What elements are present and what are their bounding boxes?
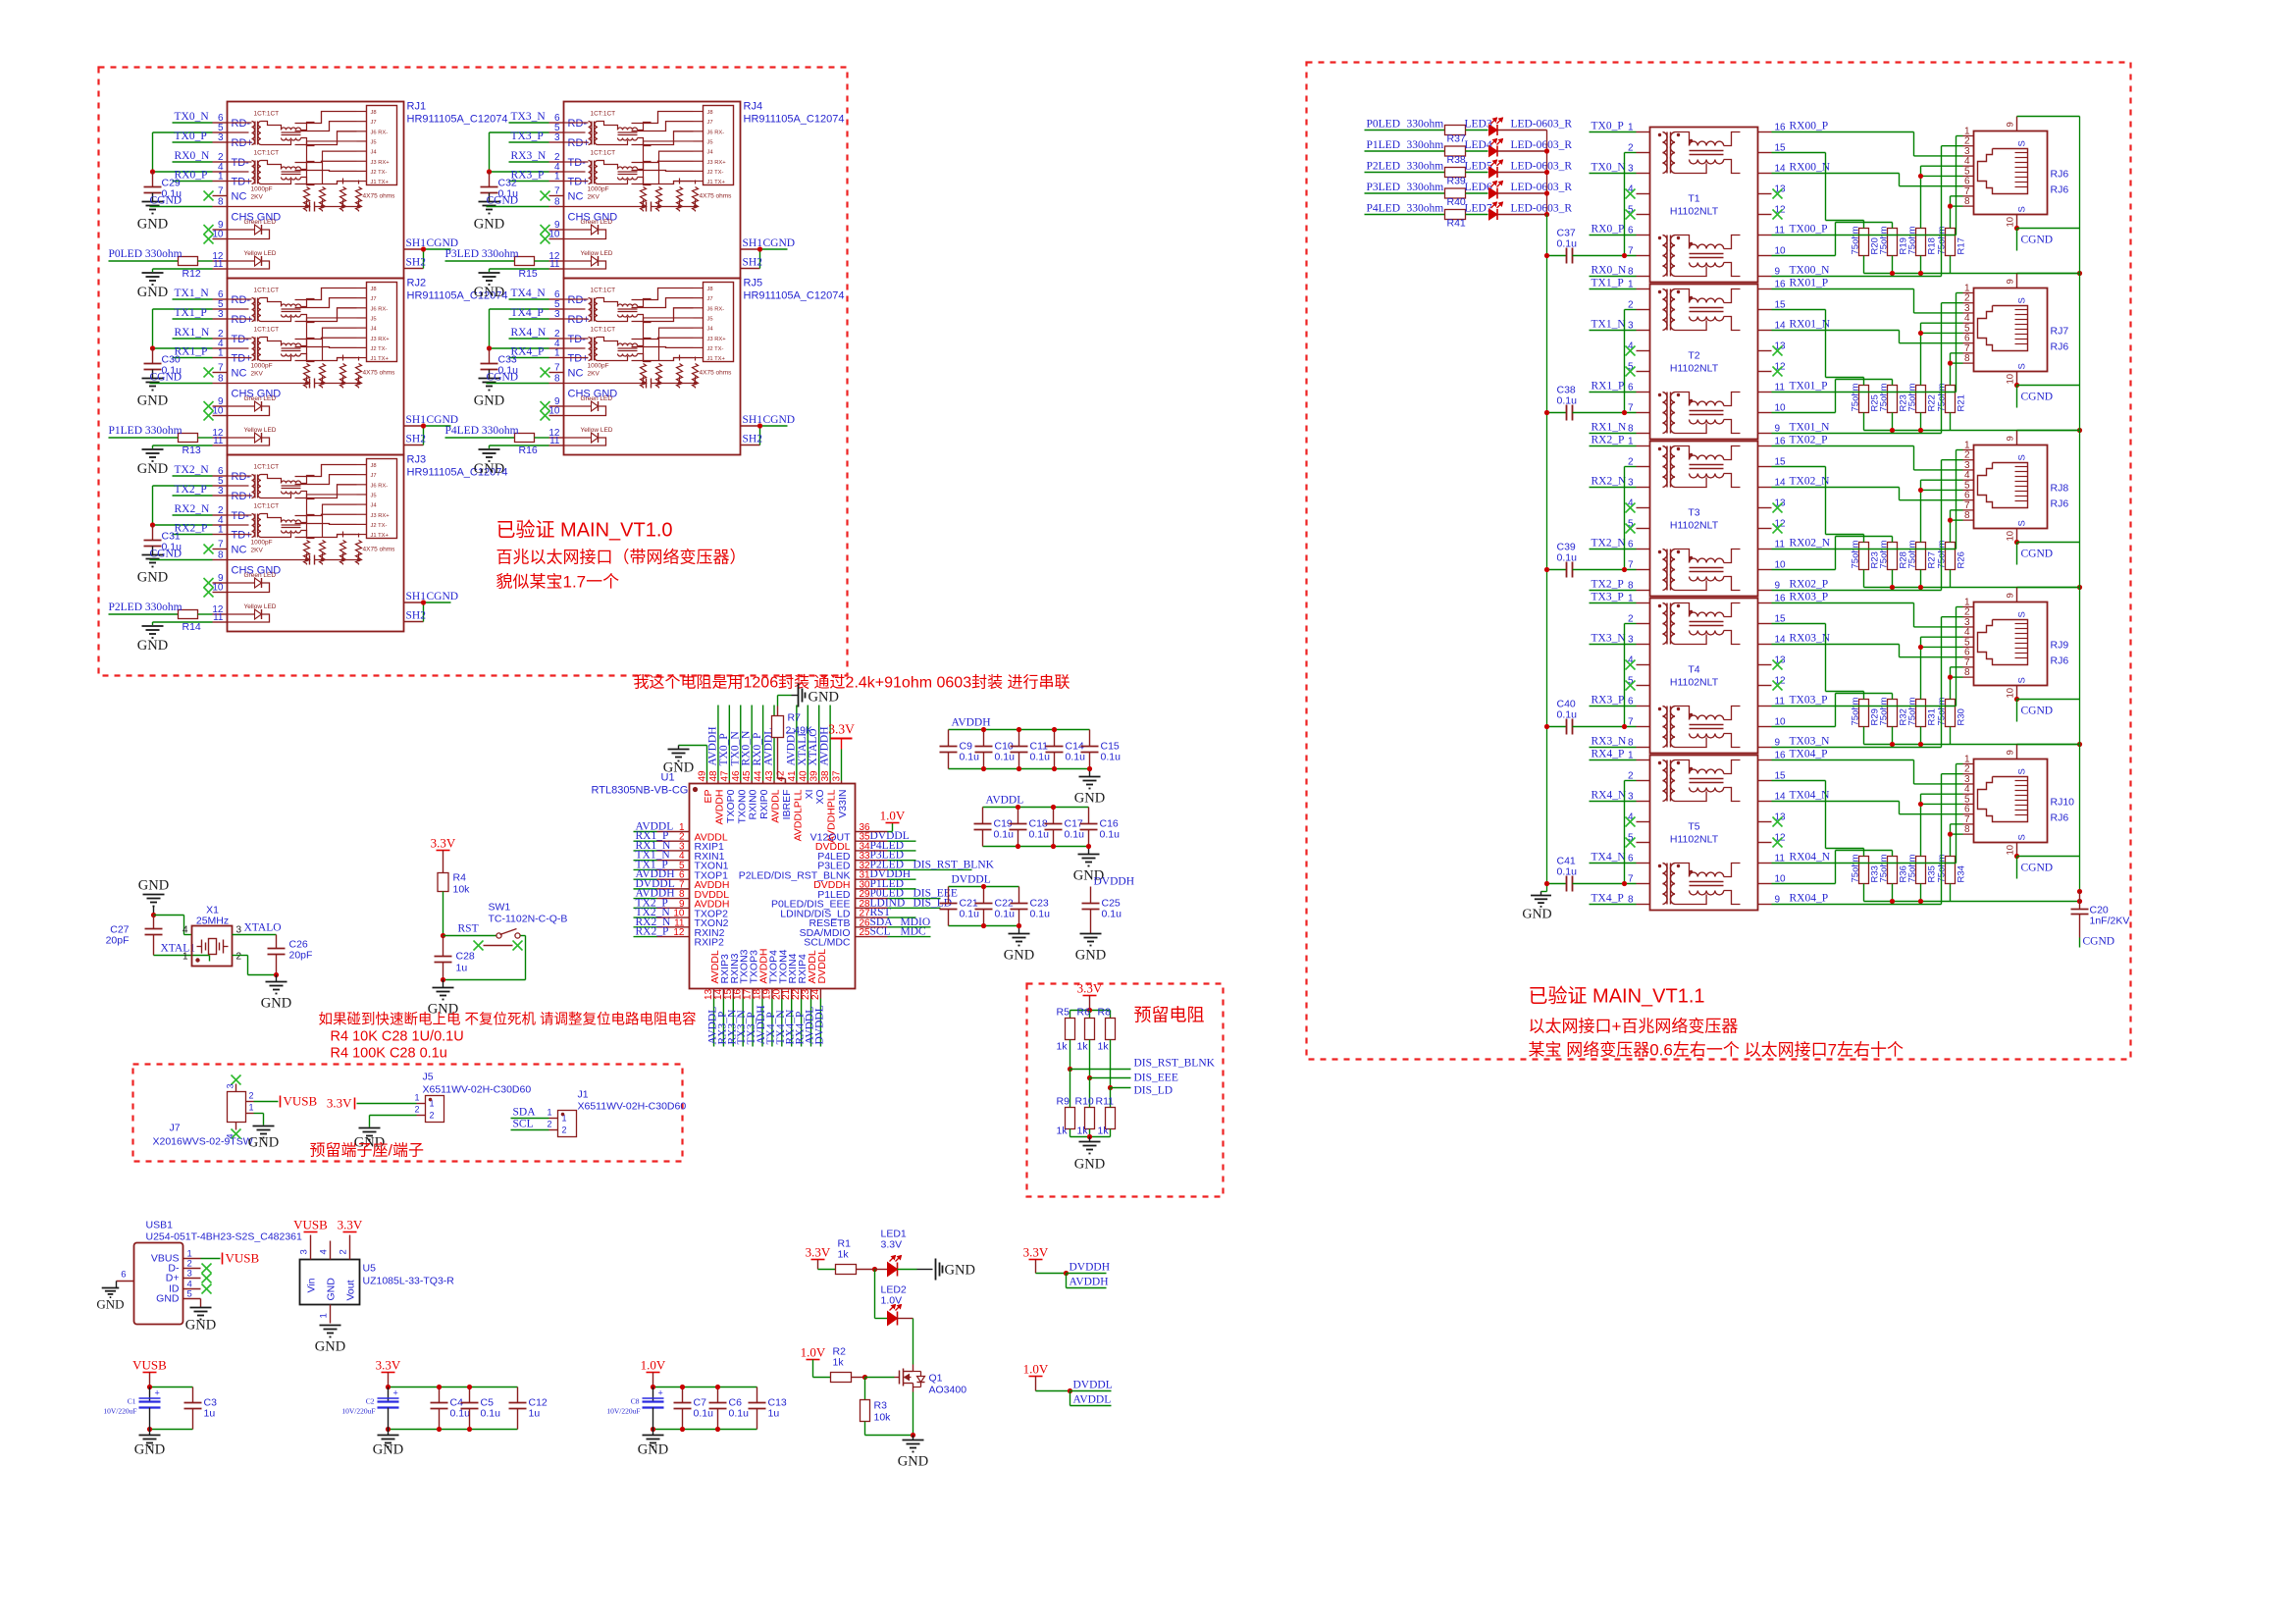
svg-text:GND: GND [474, 217, 504, 233]
resistor R27 75ohm [1916, 543, 1926, 570]
svg-text:3: 3 [218, 309, 224, 320]
svg-text:1u: 1u [204, 1408, 216, 1420]
svg-text:R9: R9 [1057, 1096, 1070, 1108]
svg-text:J2 TX-: J2 TX- [371, 170, 388, 176]
svg-text:DIS_RST_BLNK: DIS_RST_BLNK [913, 859, 995, 870]
svg-text:P3LED 330ohm: P3LED 330ohm [445, 248, 519, 260]
RJ10 pin 1 [1963, 763, 1974, 765]
svg-text:SW1: SW1 [489, 902, 511, 914]
wire RX_P to jack pin3 [1772, 445, 1914, 447]
U1 pin 1 AVDDL [657, 831, 690, 833]
svg-text:RJ2: RJ2 [407, 278, 427, 289]
svg-text:R40: R40 [1447, 196, 1466, 208]
internal RJ45 pin block [367, 106, 397, 185]
svg-text:1CT:1CT: 1CT:1CT [254, 327, 280, 334]
svg-text:TX0_P: TX0_P [175, 131, 207, 142]
svg-text:29: 29 [860, 889, 871, 900]
wire CT pin15 to R [1772, 780, 1826, 782]
U1 pin 33 [856, 860, 888, 862]
svg-text:1: 1 [414, 1093, 419, 1103]
wire rail bottom [653, 1429, 757, 1431]
wire XTAL1 [154, 955, 210, 957]
U1 pin 16 TX3_N [742, 989, 744, 999]
svg-text:USB1: USB1 [146, 1220, 174, 1231]
no-connect pin7 [541, 191, 550, 201]
RJ10 pin 7 [1963, 823, 1974, 825]
svg-text:P2LED 330ohm: P2LED 330ohm [109, 602, 183, 613]
svg-text:0.1u: 0.1u [729, 1408, 750, 1420]
svg-text:2: 2 [236, 952, 242, 963]
svg-text:1k: 1k [1077, 1126, 1089, 1137]
svg-text:RJ9: RJ9 [2051, 640, 2069, 652]
U1 pin 32 [856, 868, 888, 870]
capacitor C16 0.1u [1088, 808, 1090, 824]
polarized capacitor C8 10V/220uF [652, 1387, 654, 1402]
junction [487, 169, 492, 174]
wire jack pins 4,5 to R [1921, 793, 1963, 795]
svg-text:X6511WV-02H-C30D60: X6511WV-02H-C30D60 [423, 1084, 532, 1096]
RJ45 connector symbol [1978, 149, 2028, 194]
T4 pin 1 [1637, 602, 1650, 604]
svg-text:J6 RX-: J6 RX- [371, 306, 389, 312]
internal RJ45 pin block [704, 283, 734, 362]
svg-text:C2: C2 [366, 1397, 375, 1406]
svg-text:TD-: TD- [232, 510, 250, 522]
svg-text:330ohm: 330ohm [1407, 182, 1444, 193]
capacitor C15 0.1u [1089, 730, 1091, 747]
dashed frame MAIN_VT1.1 block [1307, 63, 2131, 1060]
svg-text:TX03_P: TX03_P [1790, 695, 1828, 707]
svg-text:RTL8305NB-VB-CG: RTL8305NB-VB-CG [592, 785, 689, 797]
wire SH1/SH2 to CGND [741, 248, 760, 250]
svg-text:3.3V: 3.3V [806, 1245, 831, 1260]
svg-text:4X75 ohms: 4X75 ohms [363, 193, 396, 200]
T4 pin 11 [1758, 706, 1772, 707]
wire EP pin49 to GND [706, 746, 708, 781]
svg-text:1k: 1k [1098, 1126, 1110, 1137]
resistor R17 75ohm [1946, 229, 1956, 256]
svg-text:TX3_N: TX3_N [511, 111, 547, 123]
svg-text:J4: J4 [371, 150, 378, 156]
svg-text:GND: GND [261, 996, 291, 1012]
wire TX2_P [1590, 590, 1637, 592]
RJ9 shield pin 10 [2016, 686, 2018, 700]
ground [1089, 1137, 1091, 1142]
svg-text:10: 10 [548, 230, 560, 240]
wire RX0_N [1590, 276, 1637, 278]
svg-text:某宝 网络变压器0.6左右一个 以太网接口7左右十个: 某宝 网络变压器0.6左右一个 以太网接口7左右十个 [1529, 1041, 1905, 1060]
transformer windings [1663, 603, 1668, 645]
wire TX4_N to pin6 [509, 298, 549, 300]
svg-text:75ohm: 75ohm [1851, 226, 1861, 254]
U1 pin 4 TX1_N [657, 860, 690, 862]
wire CT pin10 to R [1772, 569, 1836, 571]
T5 pin 1 [1637, 759, 1650, 761]
svg-text:TX1_P: TX1_P [175, 307, 207, 319]
svg-text:J1 TX+: J1 TX+ [707, 356, 726, 362]
svg-text:TXOP0: TXOP0 [725, 789, 737, 823]
U1 pin 7 DVDDL [657, 888, 690, 890]
svg-text:1CT:1CT: 1CT:1CT [254, 503, 280, 510]
RJ45 connector symbol [1978, 777, 2028, 822]
svg-text:TX2_N: TX2_N [1592, 538, 1627, 550]
svg-text:Vin: Vin [306, 1278, 318, 1292]
wire P4LED [1365, 214, 1445, 216]
svg-text:J8: J8 [371, 463, 377, 469]
svg-text:TX04_N: TX04_N [1790, 790, 1831, 802]
svg-text:1CT:1CT: 1CT:1CT [591, 150, 616, 157]
no-connect pins 13,12 [1773, 817, 1783, 827]
wire TX1_N [1590, 330, 1637, 332]
RJ10 pin 8 [1963, 833, 1974, 835]
svg-text:AVDDLPLL: AVDDLPLL [792, 789, 804, 841]
svg-text:GND: GND [137, 570, 168, 586]
svg-text:GND: GND [945, 1263, 975, 1279]
wire/net AVDDH [717, 706, 719, 781]
capacitor C9 0.1u [948, 730, 950, 747]
svg-text:4: 4 [183, 925, 188, 936]
svg-text:TX4_P: TX4_P [1592, 893, 1624, 905]
svg-text:31: 31 [860, 870, 871, 881]
connector J1 X6511WV-02H-C30D60 [558, 1111, 577, 1137]
svg-text:1CT:1CT: 1CT:1CT [591, 288, 616, 294]
capacitor C38 0.1u [1547, 412, 1567, 414]
wire TX_P to jack pin1 [1772, 863, 1957, 864]
svg-text:LED6: LED6 [1465, 182, 1492, 193]
svg-text:GND: GND [373, 1442, 403, 1458]
svg-text:LED-0603_R: LED-0603_R [1511, 139, 1573, 151]
svg-text:TX2_P: TX2_P [175, 484, 207, 496]
svg-text:RX0_N: RX0_N [175, 150, 210, 162]
internal 4x75 ohm resistors [641, 187, 647, 212]
capacitor C39 0.1u [1547, 569, 1567, 571]
T3 pin 9 [1758, 590, 1772, 592]
resistor R19 75ohm [1888, 229, 1898, 256]
svg-text:J7: J7 [371, 120, 377, 126]
svg-text:TX0_N: TX0_N [175, 111, 210, 123]
svg-text:0.1u: 0.1u [1100, 829, 1121, 841]
T2 pin 6 [1637, 392, 1650, 393]
RJ8 pin 8 [1963, 519, 1974, 521]
svg-text:RX03_N: RX03_N [1790, 633, 1831, 645]
svg-text:U5: U5 [363, 1263, 377, 1275]
svg-text:H1102NLT: H1102NLT [1670, 677, 1719, 689]
svg-text:J2 TX-: J2 TX- [707, 170, 724, 176]
RJ8 shield pin 10 [2016, 529, 2018, 543]
RJ6 pin 1 [1963, 135, 1974, 137]
T4 pin 10 [1758, 726, 1772, 728]
svg-text:J6 RX-: J6 RX- [707, 306, 725, 312]
svg-text:GND: GND [809, 690, 839, 706]
T5 pin 14 [1758, 801, 1772, 803]
T3 pin 11 [1758, 549, 1772, 550]
internal RJ45 pin block [367, 283, 397, 362]
resistor R10 1k [1085, 1108, 1095, 1129]
no-connect pin10 [204, 235, 214, 244]
RJ8 pin 5 [1963, 489, 1974, 491]
RJ10 shield pin 9 [2016, 745, 2018, 759]
wire pin11 to GND [153, 268, 213, 270]
svg-text:J3 RX+: J3 RX+ [371, 337, 391, 342]
T1 pin 8 [1637, 276, 1650, 278]
svg-text:CGND: CGND [150, 372, 183, 384]
T4 pin 4 [1637, 664, 1650, 666]
U1 pin 39 [818, 781, 820, 784]
wire shield pin9 to CGND rail [2017, 430, 2080, 432]
RJ45 jack RJ5 (HR911105A) [564, 279, 741, 455]
ground [1089, 769, 1091, 777]
svg-text:RJ6: RJ6 [2051, 184, 2069, 196]
svg-text:RX00_N: RX00_N [1790, 162, 1831, 174]
wire RX_P to jack pin3 [1772, 131, 1914, 133]
capacitor C33 0.1u [489, 348, 491, 364]
wire RX2_N to pin2 [173, 514, 213, 516]
capacitor C11 0.1u [1018, 730, 1020, 747]
ground [190, 1307, 212, 1309]
svg-text:LED4: LED4 [1465, 139, 1492, 151]
wire to Q1 gate [865, 1377, 895, 1379]
svg-text:11: 11 [213, 436, 224, 446]
wire RX2_P to pin1 [173, 534, 213, 536]
svg-text:8: 8 [554, 197, 560, 208]
T2 pin 14 [1758, 330, 1772, 332]
svg-text:0.1u: 0.1u [1101, 752, 1122, 763]
svg-text:2: 2 [414, 1105, 419, 1115]
T2 pin 12 [1758, 371, 1772, 373]
resistor R1 1k [836, 1265, 857, 1275]
svg-text:8: 8 [218, 550, 224, 561]
wire jack pins 7,8 to R [1951, 195, 1963, 197]
svg-text:RX3_P: RX3_P [1592, 695, 1625, 707]
U1 pin 14 RX3_P [722, 989, 724, 999]
svg-text:RJ3: RJ3 [407, 454, 427, 466]
svg-text:RJ5: RJ5 [744, 278, 763, 289]
svg-text:TX2_P: TX2_P [1592, 579, 1624, 591]
ground [253, 1126, 275, 1127]
no-connect [202, 1264, 212, 1274]
svg-text:P1LED 330ohm: P1LED 330ohm [109, 425, 183, 437]
U1 pin 22 RX4_P [801, 989, 803, 999]
U1 pin 35 [856, 840, 888, 842]
svg-text:TX3_N: TX3_N [1592, 633, 1627, 645]
svg-text:J1: J1 [578, 1089, 589, 1101]
svg-text:AVDDH: AVDDH [1070, 1277, 1109, 1288]
svg-text:J5: J5 [371, 316, 377, 322]
wire pin11 to GND [153, 621, 213, 623]
wire TX2_P to pin3 [173, 495, 213, 497]
svg-text:RJ6: RJ6 [2051, 498, 2069, 510]
T4 pin 7 [1637, 726, 1650, 728]
svg-text:10k: 10k [453, 884, 471, 896]
internal 4x75 ohm resistors [304, 364, 310, 389]
wire jack pins 4,5 to R [1921, 165, 1963, 167]
svg-text:RX04_P: RX04_P [1790, 893, 1829, 905]
svg-text:75ohm: 75ohm [1879, 540, 1890, 568]
T3 pin 1 [1637, 445, 1650, 447]
T5 pin 6 [1637, 863, 1650, 864]
ground [142, 554, 164, 556]
svg-text:GND: GND [474, 393, 504, 409]
svg-text:如果碰到快速断电上电 不复位死机 请调整复位电路电阻电容: 如果碰到快速断电上电 不复位死机 请调整复位电路电阻电容 [319, 1011, 697, 1028]
svg-text:10: 10 [2006, 531, 2016, 542]
svg-text:75ohm: 75ohm [1907, 383, 1918, 411]
wire TX4_N [1590, 863, 1637, 864]
svg-text:DVDDL: DVDDL [952, 874, 991, 886]
resistor R8 1k [1110, 1011, 1112, 1019]
ground [142, 625, 164, 627]
RJ6 pin 4 [1963, 165, 1974, 167]
svg-text:TD+: TD+ [232, 353, 252, 365]
U1 pin 15 RX3_N [732, 989, 734, 999]
svg-text:1CT:1CT: 1CT:1CT [254, 288, 280, 294]
resistor R20 75ohm [1859, 229, 1869, 256]
wire rail top [983, 807, 1089, 809]
svg-text:RJ1: RJ1 [407, 101, 427, 113]
svg-text:3.3V: 3.3V [828, 722, 855, 737]
internal wiring [632, 112, 694, 124]
wire rail bottom [983, 846, 1089, 848]
svg-text:V12OUT: V12OUT [810, 832, 851, 844]
wire P2LED [1365, 172, 1445, 174]
resistor R36 75ohm [1888, 857, 1898, 884]
svg-text:CGND: CGND [2021, 549, 2054, 560]
svg-text:H1102NLT: H1102NLT [1670, 834, 1719, 846]
capacitor C31 0.1u [152, 525, 154, 541]
svg-text:1: 1 [218, 525, 224, 536]
svg-text:8: 8 [1964, 353, 1970, 364]
svg-text:TX1_N: TX1_N [1592, 319, 1627, 331]
wire RX1_P [1590, 392, 1637, 393]
RJ45 jack RJ2 (HR911105A) [228, 279, 404, 455]
svg-text:3.3V: 3.3V [1077, 981, 1103, 996]
wire RX_P to jack pin3 [1772, 759, 1914, 761]
svg-text:XTALI: XTALI [797, 733, 809, 766]
RJ45 connector symbol [1978, 620, 2028, 665]
svg-text:TD-: TD- [232, 334, 250, 345]
svg-text:SH2: SH2 [406, 257, 427, 269]
wire VBUS to VUSB [201, 1258, 221, 1260]
T4 pin 2 [1637, 623, 1650, 625]
wire rail top [949, 729, 1090, 731]
svg-text:3.3V: 3.3V [338, 1218, 363, 1232]
svg-text:RD+: RD+ [568, 137, 590, 149]
no-connect pins 4,5 [1626, 817, 1636, 827]
ground [142, 378, 164, 380]
svg-text:TX00_P: TX00_P [1790, 224, 1828, 236]
no-connect pins 13,12 [1773, 346, 1783, 356]
svg-text:7: 7 [218, 540, 224, 550]
U1 pin 8 AVDDH [657, 898, 690, 900]
svg-text:T5: T5 [1688, 821, 1699, 833]
svg-text:J6 RX-: J6 RX- [371, 130, 389, 135]
T3 pin 15 [1758, 466, 1772, 468]
wire resistor bottom bus [1863, 884, 1865, 902]
svg-text:CGND: CGND [150, 549, 183, 560]
RJ7 pin 1 [1963, 292, 1974, 294]
svg-text:3: 3 [554, 309, 560, 320]
internal RJ45 pin block [367, 459, 397, 539]
T3 pin 13 [1758, 507, 1772, 509]
svg-text:RX2_P: RX2_P [636, 926, 669, 938]
svg-text:预留端子座/端子: 预留端子座/端子 [310, 1142, 424, 1160]
T1 pin 5 [1637, 214, 1650, 216]
resistor R37 330ohm [1445, 126, 1466, 135]
RJ45 jack RJ7 [1974, 288, 2048, 372]
svg-text:Vout: Vout [345, 1280, 357, 1300]
svg-text:1u: 1u [768, 1408, 780, 1420]
wire RX_N to jack pin6 [1772, 644, 1900, 646]
U1 pin 25 [856, 936, 888, 938]
svg-text:S: S [2017, 677, 2028, 683]
svg-text:1u: 1u [456, 963, 468, 974]
capacitor C23 0.1u [1018, 887, 1020, 904]
svg-text:Green LED: Green LED [244, 572, 277, 579]
svg-text:R8: R8 [1098, 1007, 1112, 1019]
wire RX2_P [1590, 445, 1637, 447]
resistor R25 75ohm [1859, 386, 1869, 413]
svg-text:RX4_N: RX4_N [1592, 790, 1627, 802]
svg-text:8: 8 [1964, 824, 1970, 835]
svg-text:R16: R16 [519, 445, 538, 456]
svg-text:RX0_P: RX0_P [752, 733, 763, 766]
no-connect pins 4,5 [1626, 346, 1636, 356]
svg-text:+: + [658, 1388, 663, 1398]
capacitor C3 1u [192, 1387, 194, 1403]
svg-text:RX4_P: RX4_P [1592, 749, 1625, 760]
no-connect pin7 [204, 191, 214, 201]
wire TX1_P [1590, 288, 1637, 290]
U1 pin 27 [856, 916, 888, 918]
svg-text:LED3: LED3 [1465, 119, 1492, 131]
svg-text:AVDDH: AVDDH [713, 790, 725, 825]
svg-text:10: 10 [212, 230, 224, 240]
wire TX2_N [1590, 549, 1637, 550]
no-connect pin10 [541, 411, 550, 421]
svg-text:+: + [155, 1388, 160, 1398]
svg-text:GND: GND [638, 1442, 668, 1458]
svg-text:貌似某宝1.7一个: 貌似某宝1.7一个 [496, 573, 620, 592]
resistor R18 75ohm [1916, 229, 1926, 256]
svg-text:AVDDH: AVDDH [706, 726, 718, 765]
svg-text:我这个电阻是用1206封装 通过2.4k+91ohm 060: 我这个电阻是用1206封装 通过2.4k+91ohm 0603封装 进行串联 [634, 674, 1070, 692]
resistor R16 330ohm [445, 437, 515, 439]
svg-text:LED-0603_R: LED-0603_R [1511, 119, 1573, 131]
ground [359, 1127, 381, 1129]
wire P3LED [1365, 192, 1445, 194]
svg-text:10V/220uF: 10V/220uF [103, 1407, 136, 1416]
svg-text:J5: J5 [371, 493, 377, 498]
svg-text:Yellow LED: Yellow LED [244, 427, 277, 434]
ground [668, 749, 690, 751]
svg-text:TX02_P: TX02_P [1790, 435, 1828, 446]
svg-text:SH1: SH1 [406, 237, 427, 249]
T4 pin 3 [1637, 644, 1650, 646]
svg-text:J7: J7 [707, 120, 713, 126]
RJ8 pin 2 [1963, 459, 1974, 461]
svg-text:T2: T2 [1688, 350, 1699, 362]
RJ10 pin 3 [1963, 783, 1974, 785]
svg-text:GND: GND [137, 461, 168, 477]
T2 pin 1 [1637, 288, 1650, 290]
svg-text:R12: R12 [183, 268, 201, 280]
T3 pin 3 [1637, 487, 1650, 489]
internal 4x75 ohm resistors [304, 187, 310, 212]
svg-text:J5: J5 [371, 139, 377, 145]
wire CT pin10 to R [1772, 412, 1836, 414]
svg-text:Yellow LED: Yellow LED [581, 427, 613, 434]
svg-text:RX00_P: RX00_P [1790, 121, 1829, 132]
U1 pin 29 [856, 898, 888, 900]
